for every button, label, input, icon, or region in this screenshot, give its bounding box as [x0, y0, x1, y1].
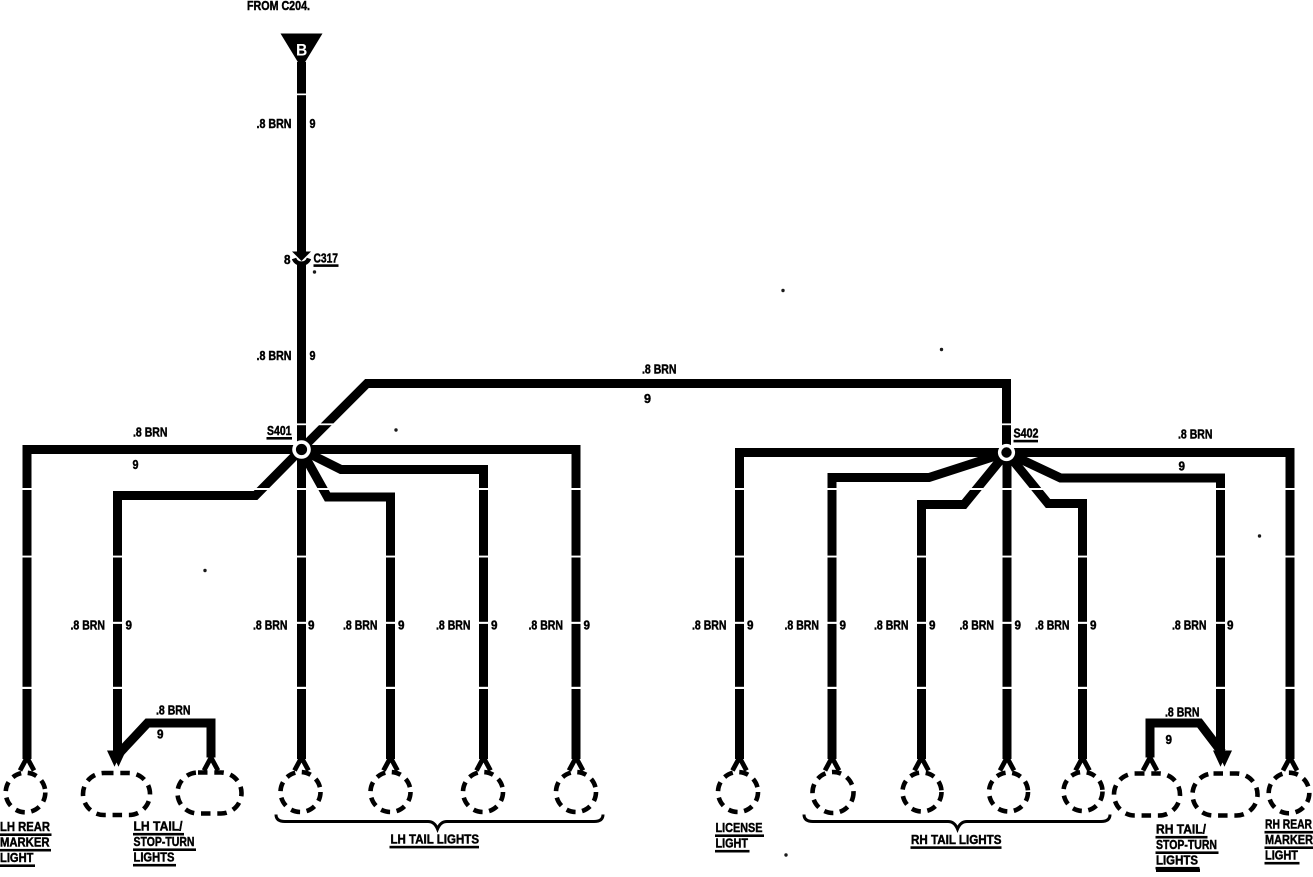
svg-text:9: 9 — [644, 391, 651, 406]
wire S401 left to LH rear marker light — [27, 450, 301, 760]
svg-text:9: 9 — [1179, 459, 1186, 474]
wire S401 to LH tail light 2 — [301, 450, 391, 760]
terminal into RH tail/stop-turn light 1 — [1143, 758, 1157, 771]
terminal into RH tail light 3 — [1000, 758, 1014, 771]
svg-text:.8 BRN: .8 BRN — [692, 618, 727, 633]
brace LH tail lights group — [276, 815, 603, 830]
lamp RH tail/stop-turn light 1 — [1114, 774, 1180, 816]
svg-text:STOP-TURN: STOP-TURN — [134, 834, 195, 849]
terminal into RH tail light 1 — [825, 758, 839, 771]
svg-text:LIGHT: LIGHT — [1265, 848, 1298, 863]
lamp LH rear marker light — [6, 773, 46, 813]
wire S402 right to RH rear marker light — [1007, 453, 1291, 760]
wire S401 down to LH tail light 1 — [297, 450, 306, 760]
svg-text:.8 BRN: .8 BRN — [785, 618, 820, 633]
lamp LH tail light 4 — [556, 772, 596, 812]
svg-text:.8 BRN: .8 BRN — [1172, 618, 1207, 633]
wire S401 right to LH tail light 4 — [301, 450, 576, 760]
svg-text:.8 BRN: .8 BRN — [642, 362, 677, 377]
lamp license light — [718, 772, 758, 812]
svg-text:9: 9 — [747, 618, 754, 633]
svg-text:9: 9 — [929, 618, 936, 633]
wire .8 BRN branch to LH tail/stop-turn light 2 — [119, 723, 211, 758]
wire .8 BRN from B to C317 — [297, 62, 306, 252]
wire S402 to RH tail light 1 — [832, 453, 1007, 760]
lamp RH tail light 2 — [903, 773, 942, 812]
svg-text:.8 BRN: .8 BRN — [253, 618, 288, 633]
svg-text:MARKER: MARKER — [0, 835, 50, 850]
svg-text:LH TAIL/: LH TAIL/ — [134, 819, 183, 834]
lamp LH tail/stop-turn light 2 — [178, 773, 242, 814]
svg-text:.8 BRN: .8 BRN — [343, 618, 378, 633]
terminal into LH rear marker light — [20, 758, 34, 771]
svg-text:9: 9 — [1090, 618, 1097, 633]
scan artifact wire notches at label row — [111, 622, 125, 624]
splice S402 — [998, 444, 1015, 461]
svg-text:S402: S402 — [1014, 426, 1039, 441]
svg-text:C317: C317 — [314, 251, 339, 266]
wire .8 BRN from C317 to S401 — [297, 264, 306, 446]
connector C317 (female cup half) — [294, 259, 309, 264]
svg-text:FROM C204.: FROM C204. — [247, 0, 310, 13]
svg-text:RH REAR: RH REAR — [1265, 817, 1312, 832]
svg-text:RH TAIL/: RH TAIL/ — [1156, 822, 1206, 837]
wire S402 to RH tail light 2 — [922, 453, 1007, 760]
lamp LH tail light 1 — [281, 772, 321, 812]
smudge below RH stop-turn label — [1156, 869, 1200, 872]
svg-text:STOP-TURN: STOP-TURN — [1156, 837, 1217, 852]
svg-text:9: 9 — [491, 618, 498, 633]
svg-text:.8 BRN: .8 BRN — [1165, 705, 1200, 720]
svg-text:.8 BRN: .8 BRN — [156, 703, 191, 718]
svg-text:9: 9 — [1166, 732, 1173, 747]
svg-text:9: 9 — [840, 618, 847, 633]
svg-text:.8 BRN: .8 BRN — [436, 618, 471, 633]
connector triangle B (feed from C204) — [281, 34, 323, 69]
svg-text:LIGHT: LIGHT — [0, 850, 34, 865]
connector C317 (male arrow half) — [292, 252, 311, 262]
terminal into RH tail light 4 — [1076, 758, 1090, 771]
wire .8 BRN branch from RH tail/stop-turn light 1 — [1150, 723, 1222, 758]
svg-text:LIGHTS: LIGHTS — [1156, 853, 1198, 868]
wire .8 BRN from S401 to S402 — [301, 384, 1007, 453]
svg-text:9: 9 — [1227, 618, 1234, 633]
svg-text:9: 9 — [133, 457, 139, 472]
svg-text:LIGHT: LIGHT — [716, 836, 749, 851]
svg-text:9: 9 — [584, 618, 591, 633]
wire S401 to LH tail light 3 — [301, 450, 484, 760]
svg-text:9: 9 — [1015, 618, 1022, 633]
wire S402 to RH tail light 4 — [1007, 453, 1083, 760]
svg-text:.8 BRN: .8 BRN — [257, 116, 292, 131]
wire S402 to RH tail/stop-turn lights — [1007, 453, 1221, 753]
svg-text:9: 9 — [157, 727, 164, 742]
svg-text:9: 9 — [310, 116, 316, 131]
lamp RH tail light 4 — [1064, 772, 1103, 811]
lamp RH tail light 3 — [989, 773, 1028, 812]
svg-text:LIGHTS: LIGHTS — [134, 850, 175, 865]
terminal into RH rear marker light — [1283, 758, 1297, 771]
svg-text:9: 9 — [310, 348, 316, 363]
svg-text:.8 BRN: .8 BRN — [960, 618, 995, 633]
wire S402 left to license light — [740, 453, 1007, 760]
svg-text:9: 9 — [126, 618, 133, 633]
wire S402 down to RH tail light 3 — [1003, 453, 1012, 760]
terminal into LH tail/stop-turn light 2 — [204, 758, 218, 771]
scan artifact white lines — [0, 423, 1313, 425]
svg-text:.8 BRN: .8 BRN — [1178, 427, 1213, 442]
terminal into RH tail light 2 — [915, 758, 929, 771]
svg-text:RH TAIL LIGHTS: RH TAIL LIGHTS — [911, 832, 1002, 847]
lamp LH tail/stop-turn light 1 — [83, 773, 150, 815]
lamp RH tail/stop-turn light 2 — [1193, 774, 1258, 816]
svg-text:9: 9 — [398, 618, 405, 633]
svg-text:.8 BRN: .8 BRN — [257, 348, 292, 363]
scan specks — [313, 270, 316, 273]
lamp RH tail light 1 — [813, 772, 854, 813]
svg-text:B: B — [296, 41, 307, 60]
terminal into LH tail light 4 — [569, 758, 583, 771]
splice S401 — [292, 440, 311, 459]
brace RH tail lights group — [804, 815, 1110, 830]
svg-text:.8 BRN: .8 BRN — [71, 618, 106, 633]
svg-text:.8 BRN: .8 BRN — [133, 425, 168, 440]
terminal into license light — [733, 758, 747, 771]
svg-text:.8 BRN: .8 BRN — [529, 618, 564, 633]
wire S401 to LH tail/stop-turn lights — [118, 450, 302, 753]
lamp RH rear marker light — [1269, 773, 1310, 814]
arrow terminal into RH tail/stop-turn light 2 — [1213, 751, 1232, 772]
svg-text:LH TAIL LIGHTS: LH TAIL LIGHTS — [391, 832, 480, 847]
terminal into LH tail light 3 — [477, 758, 491, 771]
svg-text:9: 9 — [308, 618, 315, 633]
svg-text:.8 BRN: .8 BRN — [1035, 618, 1070, 633]
arrow terminal into LH tail/stop-turn light 1 — [107, 751, 126, 772]
svg-text:MARKER: MARKER — [1265, 832, 1313, 847]
svg-text:8: 8 — [284, 252, 291, 267]
svg-text:LH REAR: LH REAR — [0, 819, 51, 834]
lamp LH tail light 2 — [371, 772, 411, 812]
terminal into LH tail light 2 — [384, 758, 398, 771]
svg-text:.8 BRN: .8 BRN — [874, 618, 909, 633]
lamp LH tail light 3 — [463, 772, 503, 812]
svg-text:LICENSE: LICENSE — [716, 820, 763, 835]
svg-text:S401: S401 — [267, 423, 292, 438]
terminal into LH tail light 1 — [295, 758, 309, 771]
